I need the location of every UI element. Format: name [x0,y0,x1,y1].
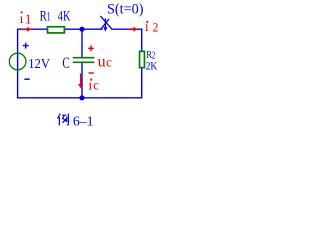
svg-text:S(t=0): S(t=0) [107,2,144,18]
source plus sign [23,43,29,49]
resistor R1 body [48,27,65,33]
caption CJK char Li (example) [57,114,68,126]
capacitor C top plate [73,57,95,59]
node junction top [79,27,84,32]
capacitor plus sign red [88,45,94,51]
wire capacitor branch upper [81,29,83,58]
wire top horizontal left segment [17,28,103,30]
wire capacitor branch lower [81,62,83,97]
switch contact stroke [100,19,109,30]
wire right vertical [141,29,143,98]
svg-text:c: c [93,79,99,94]
svg-text:4K: 4K [58,8,71,24]
switch blade [100,16,112,30]
capacitor minus sign red [89,72,94,74]
wire bottom horizontal [17,97,142,99]
wire top horizontal right segment [112,28,143,30]
switch closing arrow [104,19,106,28]
source minus sign [24,78,30,80]
node junction bottom [79,95,84,100]
current ic arrow [80,74,82,85]
svg-text:1: 1 [47,10,51,24]
svg-text:C: C [62,55,69,72]
svg-text:u: u [98,53,106,70]
current i1 arrow [23,28,28,30]
svg-text:6–1: 6–1 [73,114,94,129]
source V1 circle [9,53,26,70]
svg-text:c: c [106,56,112,71]
svg-text:2: 2 [152,19,158,34]
svg-text:1: 1 [25,11,32,26]
svg-text:12V: 12V [28,57,50,72]
svg-text:2K: 2K [146,61,158,73]
current i2 arrow [129,28,134,30]
capacitor C bottom plate [73,61,95,63]
wire left vertical [17,29,19,98]
resistor R2 body [140,51,145,67]
svg-text:ı: ı [20,11,24,26]
